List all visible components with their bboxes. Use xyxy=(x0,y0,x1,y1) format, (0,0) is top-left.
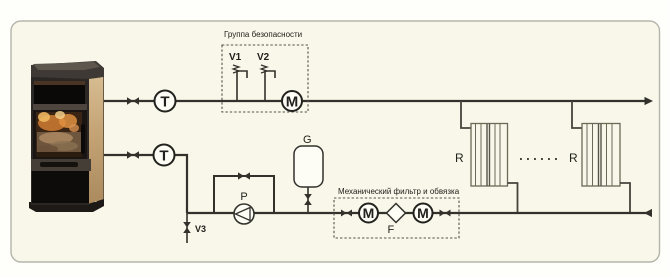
dark front body xyxy=(31,76,89,205)
svg-text:M: M xyxy=(363,205,375,221)
valve M2 xyxy=(359,204,378,223)
lower black box xyxy=(32,171,89,203)
wire: radiator 2 return xyxy=(620,183,630,213)
dots (more radiators) xyxy=(520,158,557,160)
top plate xyxy=(31,61,104,79)
door handle xyxy=(81,124,85,154)
arrow: return flow (points left) xyxy=(644,209,652,217)
thermometer T2 xyxy=(154,145,175,166)
wire: return pipe (bottom main) xyxy=(187,212,651,214)
svg-text:M: M xyxy=(286,94,299,111)
svg-text:M: M xyxy=(417,205,429,221)
radiator R1 xyxy=(471,124,508,187)
expansion tank G xyxy=(294,134,323,213)
safety valve V2 xyxy=(257,52,275,101)
wire: radiator 1 feed drop xyxy=(461,101,471,128)
wire: radiator 1 return xyxy=(508,183,518,213)
svg-text:F: F xyxy=(388,224,395,236)
svg-text:V2: V2 xyxy=(257,52,270,63)
ledge under niche xyxy=(33,104,87,110)
wire: radiator 2 feed drop xyxy=(572,101,582,128)
valve M3 xyxy=(414,204,433,223)
arrow: supply flow xyxy=(645,97,654,105)
stove/boiler xyxy=(29,61,104,212)
drain valve V3 xyxy=(183,213,206,243)
pump P xyxy=(234,204,254,224)
svg-text:P: P xyxy=(240,191,247,203)
tan right side panel xyxy=(88,68,104,204)
thermometer T1 xyxy=(155,91,176,112)
base plinth xyxy=(29,196,104,212)
filter group dashed box xyxy=(334,198,459,238)
check valve (filter in) xyxy=(341,210,352,217)
svg-text:R: R xyxy=(455,151,464,165)
svg-text:Группа безопасности: Группа безопасности xyxy=(224,30,302,39)
radiator R2 xyxy=(582,124,620,187)
wire: boiler return from T down xyxy=(104,155,187,213)
svg-text:Механический фильтр и обвязка: Механический фильтр и обвязка xyxy=(338,187,460,196)
svg-text:T: T xyxy=(160,94,169,111)
svg-text:G: G xyxy=(303,134,312,146)
wire: supply pipe (top) xyxy=(104,100,645,102)
upper niche opening xyxy=(34,81,85,104)
fire window frame xyxy=(33,110,87,159)
check valve on boiler return xyxy=(127,151,139,159)
check valve (filter out) xyxy=(440,210,451,217)
svg-text:V3: V3 xyxy=(195,224,206,234)
svg-text:T: T xyxy=(159,148,168,165)
fire glass xyxy=(36,112,82,157)
valve on bypass xyxy=(238,172,250,179)
filter F xyxy=(387,204,406,237)
safety group dashed box xyxy=(222,45,308,112)
svg-text:V1: V1 xyxy=(229,52,242,63)
wire: pump bypass loop xyxy=(214,176,274,213)
check valve on supply xyxy=(127,97,139,105)
pump M1 (supply) xyxy=(282,91,302,111)
drawer strip xyxy=(31,159,91,171)
svg-text:R: R xyxy=(569,151,578,165)
safety valve V1 xyxy=(229,52,247,101)
